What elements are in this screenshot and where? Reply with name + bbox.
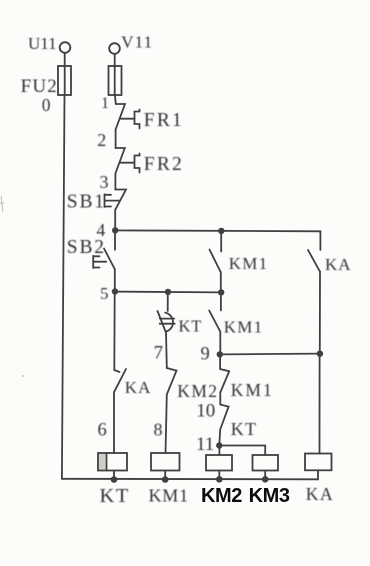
wire through right fuse [114,66,116,95]
wire U11 to fuse FU2 [64,53,66,66]
wire node-9 horizontal [220,353,320,356]
wire node 2 [115,130,117,149]
wire bottom bus [62,478,318,481]
node 9 junction [217,351,223,357]
svg-text:0: 0 [42,95,51,115]
svg-text:KM1: KM1 [229,254,268,273]
wire node 5 to KT contact [167,292,169,311]
svg-text:SB2: SB2 [67,237,106,258]
svg-text:KM2: KM2 [177,381,218,401]
svg-text:KA: KA [325,255,352,274]
svg-text:10: 10 [196,400,215,421]
relay contact KA (NO) left branch [114,292,119,372]
wire coil KT to bus [113,471,115,480]
node 5a junction [165,289,171,295]
wire to KT coil [113,392,115,453]
node 4 junction (KM1 branch) [218,228,224,234]
svg-text:FU2: FU2 [21,76,58,97]
wire node 1 [114,95,117,104]
wire coil KM2 to bus [218,471,220,480]
wire to node 5 [114,269,116,291]
contact KM1 (NO) second [220,292,222,310]
svg-text:FR1: FR1 [144,110,184,131]
wire left rail down to bottom bus [62,95,65,479]
pushbutton SB1 (NC) [115,190,126,210]
wire into coil KM2 [218,446,220,456]
wire coil KA to bus [317,470,319,479]
wire node 10 [219,393,221,405]
coil KM1 [151,453,180,471]
coil KT (time relay) [98,453,127,471]
wire node-4 horizontal [115,229,320,232]
svg-text:FR2: FR2 [144,154,184,175]
contact KM2 (NC) [167,368,177,395]
node 5 junction [112,288,118,294]
svg-text:KA: KA [306,484,334,504]
coil KM3 [253,455,279,471]
wire to node 11 [218,430,221,446]
svg-text:5: 5 [100,284,109,303]
wire coil KM1 to bus [164,471,166,480]
stray scan mark left edge [0,196,24,377]
svg-text:KM2: KM2 [201,485,242,507]
svg-text:KM1: KM1 [231,380,274,400]
node 9 right junction [317,351,323,357]
junction at bus (KT) [111,476,118,483]
wire coil KM3 to bus [264,471,266,480]
svg-text:U11: U11 [28,34,57,53]
terminal V11 circle [109,43,120,54]
svg-text:KM1: KM1 [149,486,189,506]
svg-text:KT: KT [179,317,203,336]
svg-text:KT: KT [100,485,130,507]
svg-text:9: 9 [201,345,210,365]
svg-text:11: 11 [196,434,214,455]
fuse (right, unlabeled) [109,66,122,95]
contact KA (NO) right column [319,231,321,250]
junction at bus (KM1) [162,476,169,483]
svg-text:KM1: KM1 [224,318,263,337]
contact KM1 (NC) node 9 to 10 [220,354,229,392]
time contact KT (NC delayed-opening) [158,311,166,332]
wire down to coil KA [319,354,321,454]
node at line 5 [218,289,224,295]
svg-text:2: 2 [97,130,106,150]
thermal contact FR1 [116,104,125,130]
wire node 7 [165,332,168,369]
coil KM2 [206,455,232,471]
node 11 junction [216,442,222,448]
wire through fuse FU2 [64,66,66,95]
wire to node 4 [114,210,116,231]
svg-text:7: 7 [154,344,163,364]
contact KM1 (NO) from node 4 [220,231,222,252]
svg-text:KA: KA [125,378,152,397]
svg-text:V11: V11 [121,32,153,51]
svg-text:KM3: KM3 [249,485,290,507]
svg-text:1: 1 [101,95,109,112]
junction at bus (KM3) [262,476,269,483]
node 4 junction [112,227,118,233]
terminal U11 circle [60,42,71,53]
thermal contact FR2 [115,148,124,174]
pushbutton SB2 (NO) [114,230,116,249]
wire to coil KM1 [166,395,167,454]
svg-text:8: 8 [154,419,163,439]
wire node-11 horizontal to KM3 [219,446,265,456]
wire node-5 horizontal [115,291,221,294]
svg-text:3: 3 [100,172,109,192]
wire V11 to fuse [114,54,116,66]
contact KT (delayed, node 10 to 11) [220,405,228,430]
svg-text:KT: KT [231,419,257,439]
junction at bus (KM2) [216,476,223,483]
svg-text:SB1: SB1 [67,192,106,213]
fuse FU2 left [58,66,71,95]
svg-text:6: 6 [98,421,107,441]
wire node 3 [114,174,116,190]
coil KA [305,454,332,471]
